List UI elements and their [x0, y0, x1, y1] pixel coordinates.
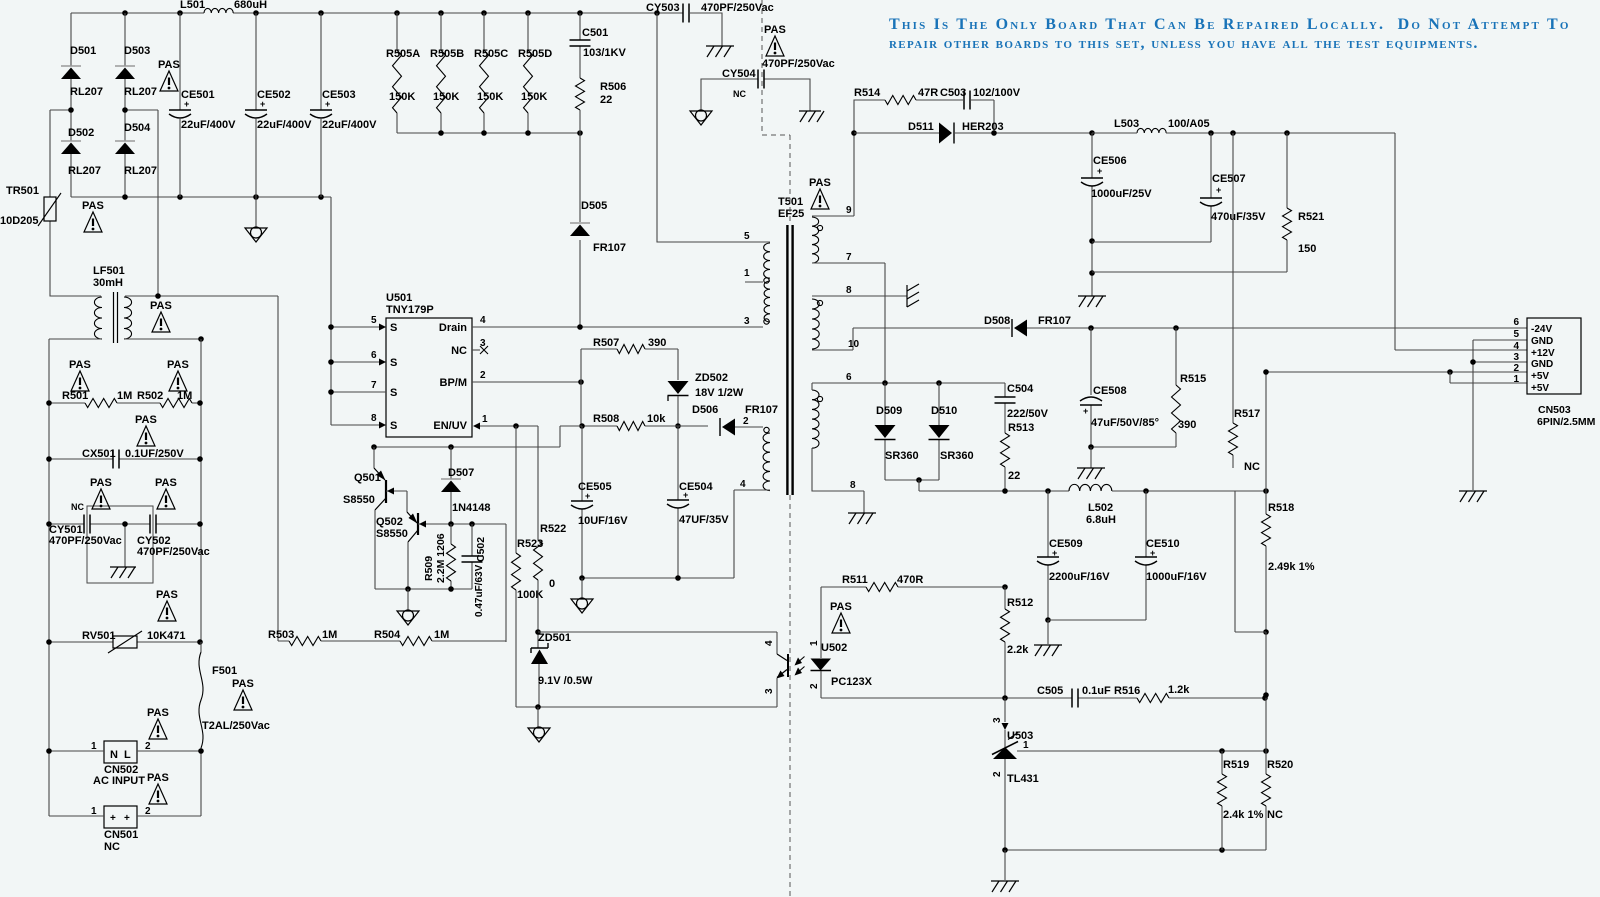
- svg-text:2: 2: [145, 741, 151, 752]
- svg-text:1: 1: [809, 640, 820, 646]
- svg-text:N: N: [110, 749, 118, 761]
- svg-text:1: 1: [744, 268, 750, 279]
- svg-text:PAS: PAS: [809, 177, 831, 189]
- diode D511: [908, 121, 1095, 144]
- resistor R509: [423, 524, 456, 589]
- wire C505 row: [821, 695, 1268, 701]
- svg-text:1: 1: [91, 741, 97, 752]
- svg-text:R505A: R505A: [386, 48, 420, 60]
- pin 8 S: [331, 413, 397, 432]
- svg-text:150K: 150K: [433, 91, 459, 103]
- svg-text:4: 4: [764, 640, 775, 646]
- svg-text:+: +: [184, 99, 189, 109]
- svg-text:1000uF/25V: 1000uF/25V: [1091, 188, 1152, 200]
- svg-text:47uF/50V/85°: 47uF/50V/85°: [1091, 417, 1159, 429]
- svg-text:6: 6: [846, 372, 852, 383]
- svg-text:D511: D511: [908, 121, 934, 133]
- svg-text:FR107: FR107: [745, 404, 778, 416]
- svg-text:10k: 10k: [647, 413, 666, 425]
- capacitor CE503: [310, 13, 377, 197]
- wire left AC rail: [48, 339, 50, 816]
- wire source bus to U501: [330, 327, 332, 425]
- warning PAS (CE501): [158, 59, 180, 91]
- warning PAS (below CY502): [156, 589, 178, 621]
- svg-text:PAS: PAS: [232, 678, 254, 690]
- capacitor CY501: [46, 502, 125, 547]
- svg-text:9.1V /0.5W: 9.1V /0.5W: [538, 675, 593, 687]
- svg-text:PAS: PAS: [764, 24, 786, 36]
- wire BP vertical: [580, 349, 582, 426]
- svg-text:U502: U502: [821, 642, 847, 654]
- svg-text:22uF/400V: 22uF/400V: [181, 119, 236, 131]
- svg-text:TR501: TR501: [6, 185, 39, 197]
- svg-text:NC: NC: [733, 89, 746, 99]
- svg-text:+: +: [1216, 185, 1221, 195]
- pin 1 terminal: [744, 268, 769, 283]
- svg-text:5: 5: [1513, 329, 1519, 340]
- wire LF501 bottom: [49, 336, 204, 342]
- diode D504: [115, 110, 157, 197]
- capacitor CE509: [1037, 491, 1110, 623]
- svg-text:RL207: RL207: [70, 86, 103, 98]
- svg-text:S: S: [390, 322, 397, 334]
- svg-text:R502: R502: [137, 390, 163, 402]
- svg-text:GND: GND: [1531, 336, 1553, 347]
- diode D505: [570, 133, 626, 327]
- resistor R512: [1001, 587, 1034, 698]
- svg-text:C504: C504: [1007, 383, 1034, 395]
- svg-text:2: 2: [480, 370, 486, 381]
- wire pin 6: [812, 372, 1005, 390]
- svg-text:+: +: [1052, 548, 1057, 558]
- svg-text:R516: R516: [1114, 685, 1140, 697]
- inductor L503: [1092, 118, 1395, 136]
- warning PAS (TR501): [82, 200, 104, 232]
- svg-text:47UF/35V: 47UF/35V: [679, 514, 729, 526]
- shield box CY501/CY502: [87, 506, 153, 583]
- T501 primary winding 5-1: [764, 243, 770, 278]
- svg-text:S: S: [390, 387, 397, 399]
- svg-text:1M: 1M: [117, 390, 132, 402]
- svg-text:D509: D509: [876, 405, 902, 417]
- svg-text:D505: D505: [581, 200, 607, 212]
- svg-text:R504: R504: [374, 629, 401, 641]
- node EN links: [371, 444, 454, 450]
- svg-text:C505: C505: [1037, 685, 1063, 697]
- svg-text:R523: R523: [517, 538, 543, 550]
- svg-text:2.2M 1206: 2.2M 1206: [435, 533, 447, 583]
- svg-text:S8550: S8550: [343, 494, 375, 506]
- svg-text:8: 8: [846, 285, 852, 296]
- svg-text:9: 9: [846, 205, 852, 216]
- svg-text:Drain: Drain: [439, 322, 467, 334]
- svg-text:RL207: RL207: [124, 86, 157, 98]
- resistor R516: [1114, 684, 1190, 703]
- svg-text:1M: 1M: [322, 629, 337, 641]
- ground pin 8b: [848, 513, 876, 524]
- svg-text:R517: R517: [1234, 408, 1260, 420]
- svg-text:680uH: 680uH: [234, 0, 267, 11]
- svg-text:L501: L501: [180, 0, 205, 11]
- resistor R521: [1092, 133, 1324, 272]
- svg-text:+: +: [585, 491, 590, 501]
- warning PAS (R502): [167, 359, 189, 391]
- wire +5V sense vertical: [1263, 632, 1269, 751]
- svg-text:NC: NC: [1267, 809, 1283, 821]
- svg-text:+: +: [110, 813, 116, 824]
- svg-text:+5V: +5V: [1531, 371, 1549, 382]
- wire EN feedback link: [374, 426, 582, 447]
- svg-text:3: 3: [744, 316, 750, 327]
- svg-text:GND: GND: [1531, 359, 1553, 370]
- warning PAS (F501): [232, 678, 254, 710]
- svg-text:R505B: R505B: [430, 48, 464, 60]
- zener ZD502: [668, 372, 744, 426]
- wire top positive rail: [71, 13, 722, 46]
- svg-text:L: L: [124, 749, 131, 761]
- svg-text:5: 5: [744, 231, 750, 242]
- resistor R522: [534, 426, 567, 632]
- ground between CY501 CY502: [110, 521, 136, 578]
- ground below U503: [991, 850, 1019, 892]
- svg-text:R505D: R505D: [518, 48, 552, 60]
- svg-text:R518: R518: [1268, 502, 1294, 514]
- svg-text:PAS: PAS: [69, 359, 91, 371]
- svg-text:SR360: SR360: [940, 450, 974, 462]
- svg-text:PAS: PAS: [147, 707, 169, 719]
- svg-text:C502: C502: [475, 537, 487, 562]
- IC U501 box: [386, 292, 472, 437]
- svg-text:CE505: CE505: [578, 481, 612, 493]
- resistor R504: [374, 629, 506, 646]
- ground below CE505: [571, 578, 593, 613]
- svg-text:S: S: [390, 357, 397, 369]
- svg-text:+: +: [683, 490, 688, 500]
- wire snubber bus: [397, 132, 580, 134]
- junction dots top rail: [122, 10, 660, 16]
- capacitor CE506: [1081, 133, 1152, 296]
- svg-text:BP/M: BP/M: [440, 377, 468, 389]
- svg-text:0.47uF/63V: 0.47uF/63V: [474, 564, 485, 617]
- svg-text:PAS: PAS: [156, 589, 178, 601]
- svg-text:R522: R522: [540, 523, 566, 535]
- capacitor CE502: [245, 13, 312, 197]
- svg-text:+: +: [260, 99, 265, 109]
- pin 2 BP/M: [440, 370, 584, 389]
- resistor R505D: [518, 13, 552, 133]
- svg-text:PAS: PAS: [150, 300, 172, 312]
- svg-text:0.1uF: 0.1uF: [1082, 685, 1111, 697]
- ground below CE502: [245, 197, 267, 242]
- node Q502 base: [448, 521, 506, 642]
- svg-text:Q501: Q501: [354, 472, 381, 484]
- wire primary pin5 feed: [657, 13, 770, 242]
- wire opto upper link: [538, 631, 777, 633]
- capacitor C504: [995, 383, 1049, 433]
- svg-text:PAS: PAS: [158, 59, 180, 71]
- svg-text:D501: D501: [70, 45, 96, 57]
- diode D503: [115, 13, 157, 110]
- diode D507: [441, 447, 491, 524]
- wire +12V feed: [1395, 133, 1527, 350]
- ground below Q502: [397, 589, 419, 625]
- wire pin 4 to CE bottoms: [734, 479, 770, 578]
- warning PAS (R501): [69, 359, 91, 391]
- svg-text:PAS: PAS: [82, 200, 104, 212]
- svg-text:47R: 47R: [918, 87, 938, 99]
- svg-text:6PIN/2.5MM: 6PIN/2.5MM: [1537, 416, 1596, 428]
- svg-text:PAS: PAS: [167, 359, 189, 371]
- wire pin 8b to ground: [812, 448, 864, 513]
- capacitor C503: [940, 87, 1021, 133]
- svg-text:8: 8: [371, 413, 377, 424]
- svg-text:CY504: CY504: [722, 68, 757, 80]
- diode D509: [875, 383, 920, 480]
- svg-text:103/1KV: 103/1KV: [583, 47, 626, 59]
- svg-text:R506: R506: [600, 81, 626, 93]
- svg-text:R507: R507: [593, 337, 619, 349]
- svg-text:RV501: RV501: [82, 630, 115, 642]
- svg-text:ZD502: ZD502: [695, 372, 728, 384]
- svg-text:470PF/250Vac: 470PF/250Vac: [762, 58, 835, 70]
- pin 7 S: [328, 380, 397, 399]
- capacitor CY502: [125, 515, 210, 559]
- svg-text:L503: L503: [1114, 118, 1139, 130]
- svg-text:1.2k: 1.2k: [1168, 684, 1190, 696]
- transistor Q502: [376, 491, 451, 589]
- fuse F501: [199, 642, 270, 751]
- ground for CY503: [706, 46, 734, 57]
- svg-text:4: 4: [480, 315, 486, 326]
- svg-text:470PF/250Vac: 470PF/250Vac: [49, 535, 122, 547]
- svg-text:22uF/400V: 22uF/400V: [322, 119, 377, 131]
- inductor L501: [180, 0, 267, 13]
- ground CN503: [1459, 491, 1487, 502]
- svg-text:+: +: [1097, 166, 1102, 176]
- svg-text:222/50V: 222/50V: [1007, 408, 1049, 420]
- capacitor C502: [462, 524, 488, 617]
- wire +5V rail: [919, 488, 1269, 494]
- varistor RV501: [46, 630, 203, 653]
- node bridge AC left: [50, 107, 74, 113]
- svg-text:SR360: SR360: [885, 450, 919, 462]
- warning PAS (T501): [809, 177, 831, 209]
- resistor R511: [821, 574, 1008, 592]
- svg-text:1: 1: [1513, 374, 1519, 385]
- svg-text:C503: C503: [940, 87, 966, 99]
- svg-text:S: S: [390, 420, 397, 432]
- resistor R508: [579, 413, 681, 431]
- svg-text:8: 8: [850, 480, 856, 491]
- svg-text:10UF/16V: 10UF/16V: [578, 515, 628, 527]
- diode D510: [919, 383, 974, 480]
- resistor R514: [851, 87, 940, 136]
- capacitor CX501: [46, 448, 203, 469]
- warning PAS (U502): [830, 601, 852, 633]
- svg-text:150K: 150K: [521, 91, 547, 103]
- svg-text:EF25: EF25: [778, 208, 804, 220]
- svg-text:+: +: [124, 813, 130, 824]
- diode D502: [61, 110, 101, 197]
- wire U503 anode rail: [1002, 847, 1266, 853]
- svg-text:D510: D510: [931, 405, 957, 417]
- warning PAS (CY504): [762, 24, 835, 70]
- connector CN502: [46, 741, 204, 787]
- svg-text:+: +: [1083, 406, 1088, 416]
- svg-text:2.2k: 2.2k: [1007, 644, 1029, 656]
- svg-text:D502: D502: [68, 127, 94, 139]
- svg-text:1: 1: [91, 806, 97, 817]
- svg-text:CE507: CE507: [1212, 173, 1246, 185]
- svg-text:4: 4: [1513, 341, 1519, 352]
- wire LF501 top: [50, 293, 278, 299]
- svg-text:HER203: HER203: [962, 121, 1004, 133]
- pin 6 S: [328, 350, 397, 369]
- svg-text:1000uF/16V: 1000uF/16V: [1146, 571, 1207, 583]
- svg-text:3: 3: [764, 688, 775, 694]
- svg-text:NC: NC: [104, 841, 120, 853]
- svg-text:470R: 470R: [897, 574, 923, 586]
- warning PAS (CN502): [147, 707, 169, 739]
- svg-text:390: 390: [1178, 419, 1196, 431]
- svg-text:C501: C501: [582, 27, 608, 39]
- resistor R505A: [386, 13, 420, 133]
- svg-text:F501: F501: [212, 665, 237, 677]
- warning PAS (below R501): [135, 414, 157, 446]
- svg-text:R521: R521: [1298, 211, 1324, 223]
- wire opto lower link: [516, 704, 777, 710]
- ground below ZD501: [528, 707, 550, 742]
- wire Q cluster emitter rail: [375, 586, 472, 592]
- T501 secondary winding 8-10: [812, 299, 823, 349]
- pin 3 terminal: [744, 316, 769, 327]
- wire right AC rail: [200, 339, 202, 816]
- ground below CE506: [1078, 296, 1106, 307]
- svg-text:TNY179P: TNY179P: [386, 304, 434, 316]
- optocoupler U502 LED: [809, 587, 873, 698]
- svg-text:R514: R514: [854, 87, 881, 99]
- svg-text:L502: L502: [1088, 502, 1113, 514]
- svg-text:PAS: PAS: [147, 772, 169, 784]
- junction dots snubber bus: [438, 130, 583, 136]
- svg-text:0.1UF/250V: 0.1UF/250V: [125, 448, 184, 460]
- svg-text:150K: 150K: [477, 91, 503, 103]
- svg-text:22: 22: [1008, 470, 1020, 482]
- T501 secondary winding 9-7: [812, 217, 823, 263]
- resistor R513: [1001, 422, 1035, 491]
- svg-text:100K: 100K: [517, 589, 543, 601]
- resistor R503: [268, 296, 400, 646]
- svg-text:PAS: PAS: [90, 477, 112, 489]
- svg-text:4: 4: [740, 479, 746, 490]
- ground below CE509: [1034, 620, 1062, 656]
- wire +5V feed: [1263, 369, 1527, 375]
- T501 primary winding 1-3: [764, 281, 770, 322]
- svg-text:150: 150: [1298, 243, 1316, 255]
- svg-text:U503: U503: [1007, 730, 1033, 742]
- svg-text:1M: 1M: [434, 629, 449, 641]
- warning PAS (LF501): [150, 300, 172, 332]
- diode D506: [665, 404, 778, 436]
- diode D501: [61, 13, 103, 110]
- resistor R501: [46, 390, 160, 408]
- svg-text:R509: R509: [423, 556, 435, 581]
- svg-text:470PF/250Vac: 470PF/250Vac: [701, 2, 774, 14]
- svg-text:R505C: R505C: [474, 48, 508, 60]
- svg-text:CX501: CX501: [82, 448, 116, 460]
- svg-text:R503: R503: [268, 629, 294, 641]
- svg-text:PC123X: PC123X: [831, 676, 873, 688]
- capacitor CY503: [646, 2, 774, 23]
- optocoupler U502 transistor: [764, 632, 805, 707]
- svg-text:10K471: 10K471: [147, 630, 186, 642]
- junction dots negative bus: [122, 194, 324, 200]
- pin 1 EN/UV: [433, 414, 538, 432]
- resistor R518: [1262, 372, 1315, 635]
- svg-text:D504: D504: [124, 122, 151, 134]
- pin 5 S: [328, 315, 397, 334]
- svg-text:2: 2: [809, 683, 820, 689]
- capacitor C505: [1037, 685, 1111, 708]
- svg-text:470PF/250Vac: 470PF/250Vac: [137, 546, 210, 558]
- svg-text:ZD501: ZD501: [538, 632, 571, 644]
- svg-text:3: 3: [1513, 352, 1519, 363]
- T501 aux winding 2-4: [763, 433, 770, 491]
- wire R518 bypass: [1235, 491, 1266, 632]
- svg-text:+: +: [1150, 548, 1155, 558]
- svg-text:LF501: LF501: [93, 265, 125, 277]
- svg-text:Q502: Q502: [376, 516, 403, 528]
- capacitor CE507: [1092, 133, 1266, 242]
- svg-text:7: 7: [371, 380, 377, 391]
- pin 2 terminal: [764, 427, 769, 432]
- svg-text:PAS: PAS: [830, 601, 852, 613]
- wire U503 ref line: [1017, 748, 1269, 754]
- svg-text:FR107: FR107: [1038, 315, 1071, 327]
- warning PAS (CY501): [90, 477, 112, 509]
- svg-text:R515: R515: [1180, 373, 1206, 385]
- svg-text:CY503: CY503: [646, 2, 680, 14]
- svg-text:R513: R513: [1008, 422, 1034, 434]
- svg-text:1: 1: [482, 414, 488, 425]
- svg-text:CN501: CN501: [104, 829, 138, 841]
- svg-text:PAS: PAS: [155, 477, 177, 489]
- svg-text:NC: NC: [451, 345, 467, 357]
- svg-text:1N4148: 1N4148: [452, 502, 491, 514]
- capacitor CY504: [701, 68, 810, 111]
- connector CN503: [1513, 317, 1595, 428]
- svg-text:U501: U501: [386, 292, 412, 304]
- resistor R515: [1088, 328, 1206, 450]
- shunt regulator U503 TL431: [992, 698, 1039, 850]
- svg-text:R501: R501: [62, 390, 88, 402]
- svg-text:100/A05: 100/A05: [1168, 118, 1210, 130]
- svg-text:5: 5: [371, 315, 377, 326]
- svg-text:R519: R519: [1223, 759, 1249, 771]
- svg-text:22: 22: [600, 94, 612, 106]
- svg-text:10: 10: [848, 339, 860, 350]
- svg-text:EN/UV: EN/UV: [433, 420, 467, 432]
- svg-text:R520: R520: [1267, 759, 1293, 771]
- warning PAS (CY502): [155, 477, 177, 509]
- svg-text:7: 7: [846, 252, 852, 263]
- node D509/D510 cathodes: [916, 477, 922, 491]
- resistor R505B: [430, 13, 464, 133]
- transformer T501 core: [778, 196, 804, 495]
- svg-text:RL207: RL207: [68, 165, 101, 177]
- svg-text:+5V: +5V: [1531, 383, 1549, 394]
- ground below CE508: [1077, 447, 1105, 479]
